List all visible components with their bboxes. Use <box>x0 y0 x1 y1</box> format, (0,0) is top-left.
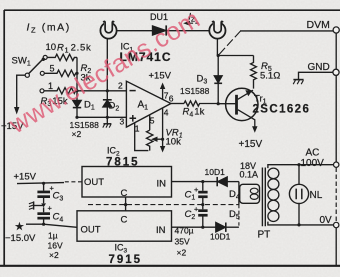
frame bottom border <box>0 265 340 267</box>
svg-text:×2: ×2 <box>49 250 59 260</box>
svg-text:2SC1626: 2SC1626 <box>253 104 311 116</box>
node dot D1 bottom <box>75 116 78 119</box>
frame left border <box>3 10 5 266</box>
-15V arrow <box>14 107 19 115</box>
svg-text:10D1: 10D1 <box>205 167 226 177</box>
svg-text:+15V: +15V <box>239 139 263 150</box>
right edge rail <box>335 33 337 162</box>
diode DU1 <box>153 25 167 35</box>
wire rail left socket to DU1 <box>116 30 153 32</box>
svg-text:R12.5k: R12.5k <box>57 43 91 55</box>
svg-text:DVM: DVM <box>307 19 330 31</box>
wire +15V rail <box>17 183 64 184</box>
resistor R1 2.5k <box>47 54 77 60</box>
svg-text:AC: AC <box>306 148 320 159</box>
transformer PT secondary connects <box>238 182 240 205</box>
svg-text:5: 5 <box>50 64 55 74</box>
svg-text:100V: 100V <box>301 158 325 169</box>
diode D4 <box>217 177 239 186</box>
node dot common <box>124 203 127 206</box>
svg-text:OUT: OUT <box>81 225 101 236</box>
svg-text:6: 6 <box>169 94 174 104</box>
node dot bus-bottom <box>75 89 78 92</box>
wire left socket down to summing node <box>106 38 108 91</box>
svg-text:NL: NL <box>310 190 323 201</box>
node dot wiper to pin4 <box>161 138 164 141</box>
resistor R4 1k <box>184 101 218 106</box>
svg-text:+15V: +15V <box>149 71 172 82</box>
svg-text:×2: ×2 <box>177 248 187 258</box>
pin4 wire down with arrow <box>160 108 165 152</box>
node dot C2 bottom <box>201 226 204 229</box>
svg-text:+: + <box>48 204 53 213</box>
resistor R5 5.1ohm <box>251 56 257 89</box>
svg-text:★: ★ <box>15 221 25 233</box>
node dots C1 <box>201 180 204 183</box>
wire -15V rail to star <box>26 223 44 225</box>
switch SW1 <box>25 55 47 92</box>
svg-text:−15.0V: −15.0V <box>5 233 36 244</box>
wire node to R5 <box>218 55 253 57</box>
transformer secondary winding <box>240 184 260 203</box>
svg-text:470µ: 470µ <box>175 226 194 236</box>
svg-text:7915: 7915 <box>109 254 143 266</box>
capacitor C4 <box>37 207 50 224</box>
svg-text:10: 10 <box>46 42 57 53</box>
svg-text:C: C <box>121 188 128 199</box>
neon lamp NL <box>289 165 308 225</box>
diode D2 (inverted) <box>103 91 112 118</box>
svg-text:+: + <box>50 184 55 193</box>
diode D1 <box>73 91 81 118</box>
resistor R3 15k <box>44 88 77 94</box>
svg-text:R41k: R41k <box>183 107 205 119</box>
transformer core <box>262 168 265 227</box>
diode D5 <box>216 223 239 232</box>
op-amp plus sign <box>130 115 137 122</box>
IC3 7915 box <box>77 211 172 241</box>
DVM terminal <box>333 27 339 33</box>
wire GND to ground <box>299 72 333 79</box>
svg-text:10k: 10k <box>166 137 182 148</box>
IC2 7815 box <box>82 167 172 198</box>
svg-text:35V: 35V <box>175 237 190 247</box>
svg-text:1S1588: 1S1588 <box>180 86 210 96</box>
svg-text:5: 5 <box>150 116 155 126</box>
svg-text:2: 2 <box>118 81 123 91</box>
wire summing node to op-amp pin2 <box>77 90 126 92</box>
svg-text:OUT: OUT <box>84 177 104 188</box>
wire DVM rail <box>240 30 333 32</box>
svg-text:4: 4 <box>164 108 169 118</box>
socket J2 (right binding post) <box>209 21 225 39</box>
wire 7915 IN to D5 <box>172 226 216 228</box>
node dot D2 bottom <box>106 116 109 119</box>
wire R4 to transistor base <box>218 103 235 105</box>
node dot +15V/C3 <box>42 182 45 185</box>
AC terminal <box>334 162 339 167</box>
svg-text:IN: IN <box>157 179 167 190</box>
wire primary bottom to 0V <box>268 222 336 225</box>
node dot output node <box>217 54 220 57</box>
transistor Tr1 2SC1626 <box>226 88 258 133</box>
svg-text:3: 3 <box>120 117 125 127</box>
svg-text:IN: IN <box>156 225 166 236</box>
diagonal wire node to DVM rail <box>219 31 240 54</box>
GND terminal <box>333 69 339 75</box>
svg-text:GND: GND <box>308 62 330 73</box>
wire SW1 pivot to -15V <box>17 75 26 108</box>
wire op-amp output to R4 <box>171 103 184 105</box>
ground at GND <box>293 80 303 85</box>
ground at op-amp pin3 <box>103 117 112 127</box>
socket J1 (left binding post) <box>100 21 116 39</box>
node dot at socket stub <box>106 89 109 92</box>
svg-text:1µ: 1µ <box>48 231 58 241</box>
ground at C3/C4 <box>29 201 44 209</box>
dashed common rail <box>88 204 239 206</box>
pin5 wire <box>149 115 151 130</box>
diode D3 <box>214 56 222 104</box>
+15V pin7 wire with up arrow <box>160 83 165 100</box>
svg-text:1: 1 <box>135 124 140 134</box>
wire bottom line to op-amp pin3 <box>77 116 126 118</box>
wire 7815 IN to D4 <box>172 181 218 183</box>
frame top border <box>4 9 340 11</box>
pin1 wire <box>135 123 149 151</box>
capacitor C3 <box>37 183 50 203</box>
node dots NL <box>297 163 300 166</box>
svg-text:0V: 0V <box>320 215 333 226</box>
svg-text:5.1Ω: 5.1Ω <box>260 71 280 82</box>
svg-text:+: + <box>194 185 199 194</box>
bus wire joining R1 R2 R3 <box>76 57 78 90</box>
common C leads between boxes <box>125 197 127 211</box>
op-amp minus sign <box>130 90 136 92</box>
wire 7815 OUT dashed <box>64 181 82 183</box>
capacitor C2 <box>198 205 207 228</box>
0V terminal <box>334 222 339 227</box>
wire right socket down to output node <box>216 38 218 55</box>
wire primary top to AC <box>268 165 336 168</box>
svg-text:×2: ×2 <box>72 129 82 139</box>
transformer primary winding <box>268 168 279 221</box>
node dot -15V/C4 <box>42 223 45 226</box>
op-amp A1 <box>126 81 170 127</box>
svg-text:+15V: +15V <box>14 172 37 183</box>
svg-text:C: C <box>121 215 128 226</box>
svg-text:PT: PT <box>258 230 271 241</box>
polarity arrow between C3 C4 <box>41 203 46 207</box>
potentiometer VR1 10k <box>147 130 163 150</box>
wire C4 node to 7915 OUT <box>44 224 77 227</box>
svg-text:16V: 16V <box>48 241 63 251</box>
node dot R2-bus <box>75 72 78 75</box>
svg-text:0.1A: 0.1A <box>240 170 259 180</box>
svg-text:+: + <box>194 205 199 214</box>
svg-text:7815: 7815 <box>106 157 140 169</box>
node dot output-D3 <box>217 102 220 105</box>
capacitor C1 <box>198 182 207 205</box>
svg-text:10D1: 10D1 <box>210 232 231 242</box>
resistor R2 3k <box>44 70 77 76</box>
wire DU1 to right socket <box>167 30 210 32</box>
Iz current arrow <box>183 21 198 26</box>
